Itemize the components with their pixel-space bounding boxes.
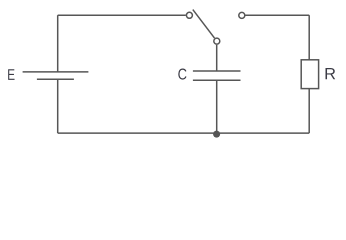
- battery E: short plate: [37, 78, 74, 80]
- label R: [326, 68, 336, 79]
- wire: right branch upper (top wire down to resistor): [308, 15, 310, 60]
- junction node (capacitor lead to bottom wire): [213, 131, 220, 138]
- resistor R: body rectangle: [301, 60, 318, 89]
- label E: [8, 69, 14, 80]
- wire: left branch upper (top wire down to battery): [57, 15, 59, 72]
- wire: bottom (common return): [58, 132, 310, 134]
- wire: top-right (switch right contact to resistor branch): [246, 14, 310, 16]
- capacitor C: top plate: [193, 70, 241, 72]
- wire: left branch lower (battery to bottom wire): [57, 79, 59, 133]
- wire: pole lead down to capacitor top plate: [216, 45, 218, 71]
- switch S: blade (from pole to left contact): [193, 10, 215, 38]
- switch S: pole circle: [214, 38, 220, 44]
- wire: capacitor bottom lead to bottom wire: [216, 80, 218, 133]
- wire: top-left (battery positive to switch left contact): [58, 14, 186, 16]
- switch S: right contact circle: [239, 12, 245, 18]
- capacitor C: bottom plate: [193, 79, 241, 81]
- battery E: long plate: [23, 71, 89, 73]
- switch S: left contact circle: [186, 12, 192, 18]
- wire: right branch lower (resistor to bottom wire): [308, 89, 310, 134]
- label C: [178, 69, 186, 80]
